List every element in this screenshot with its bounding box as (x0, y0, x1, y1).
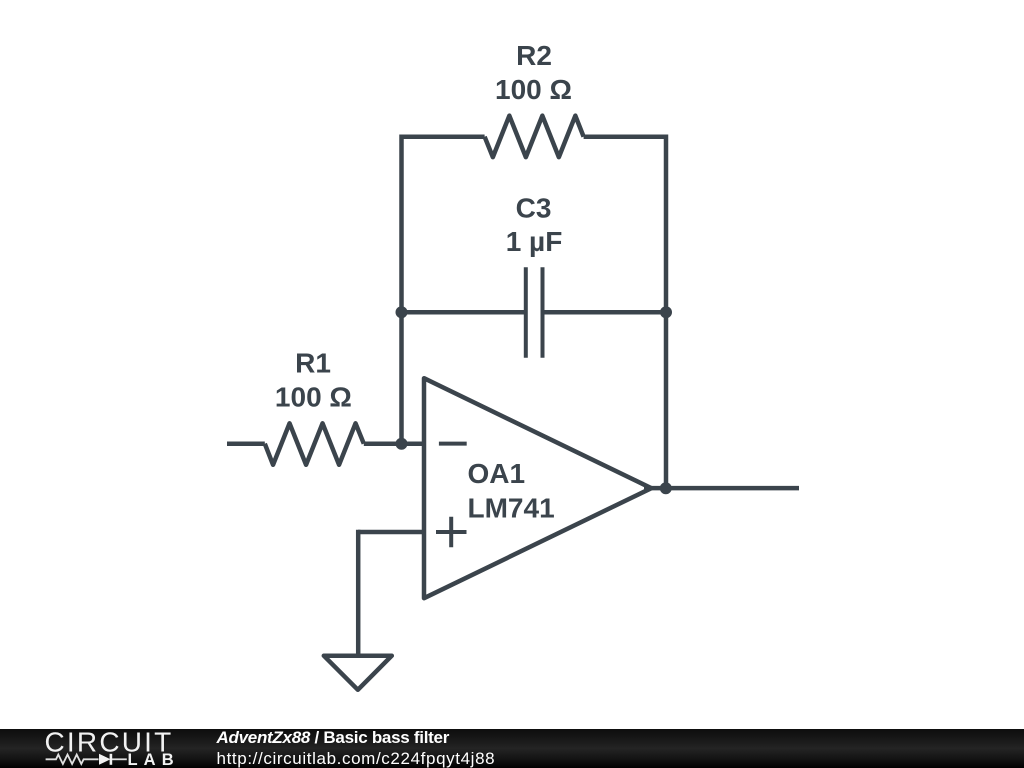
svg-text:100 Ω: 100 Ω (275, 382, 352, 413)
logo diode (99, 754, 127, 765)
resistor R2 (485, 116, 584, 157)
wire R2 right lead (584, 134, 666, 139)
wire C3 right lead (543, 310, 667, 315)
logo CIRCUIT wordmark (45, 726, 174, 757)
wire left vertical (R2 loop to inverting node) (399, 134, 404, 443)
capacitor C3 (526, 267, 543, 358)
plus sign (non-inverting input) (436, 517, 467, 548)
wire output (644, 486, 799, 491)
value OA1 LM741 (468, 492, 555, 523)
label R1 (295, 348, 331, 379)
value R1 100 Ω (275, 382, 352, 413)
svg-text:C3: C3 (516, 193, 552, 224)
footer bar (0, 729, 1024, 768)
resistor R1 (265, 423, 364, 465)
wire non-inverting lead (358, 530, 424, 535)
wire right vertical (R2 loop to output node) (664, 134, 669, 488)
svg-text:R1: R1 (295, 348, 331, 379)
wire input lead (227, 441, 265, 446)
label OA1 (468, 458, 526, 489)
node: C3 left junction (396, 306, 408, 318)
label C3 (516, 193, 552, 224)
ground (324, 656, 392, 690)
value C3 1 µF (506, 226, 563, 257)
svg-text:1 µF: 1 µF (506, 226, 563, 257)
minus sign (inverting input) (439, 442, 467, 446)
op-amp OA1 (424, 378, 651, 598)
svg-text:R2: R2 (516, 40, 552, 71)
logo resistor squiggle (46, 755, 99, 764)
logo LAB text (128, 751, 180, 768)
svg-text:100 Ω: 100 Ω (495, 74, 572, 105)
node: C3 right junction (660, 306, 672, 318)
wire R2 left lead (402, 134, 485, 139)
svg-text:LM741: LM741 (468, 492, 555, 523)
node: inverting input junction (396, 438, 408, 450)
node: output junction (660, 482, 672, 494)
value R2 100 Ω (495, 74, 572, 105)
wire C3 left lead (402, 310, 526, 315)
wire ground vertical (356, 530, 361, 656)
wire R1 to inverting input (364, 441, 424, 446)
footer title and url text (217, 727, 496, 768)
svg-text:OA1: OA1 (468, 458, 526, 489)
label R2 (516, 40, 552, 71)
